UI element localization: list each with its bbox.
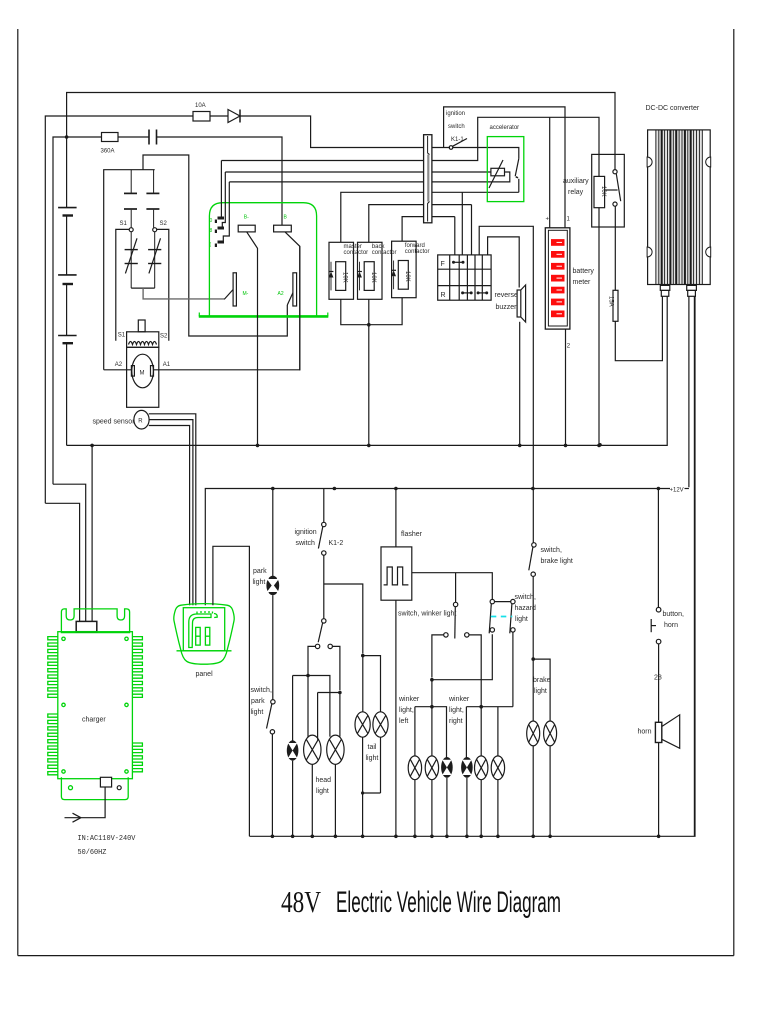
svg-text:brake light: brake light [541, 558, 573, 565]
button horn contact bottom [656, 639, 661, 644]
switch hazard pole R top [511, 599, 515, 603]
wire contactor common to return bus [368, 325, 370, 446]
wire winker lamp W4 feed [465, 707, 467, 758]
accelerator green box [487, 137, 524, 202]
wire charger feed 1 (from bus B) [45, 503, 79, 621]
wire K1-1 to accelerator [453, 148, 519, 159]
svg-text:10K: 10K [342, 272, 348, 283]
lamp winker W6 [491, 756, 504, 780]
junctions winker on bottom bus [413, 835, 500, 839]
charger fins left [48, 637, 58, 775]
junction battery positive to bus C [65, 135, 69, 139]
junction contactor common [367, 323, 371, 327]
svg-text:relay: relay [568, 189, 584, 196]
aux relay contact top [613, 170, 617, 174]
wire main negative return bus y=445.4 [67, 296, 668, 445]
switch S1 pivot [129, 228, 133, 232]
junction rail brake switch [531, 487, 535, 491]
svg-text:M: M [140, 371, 145, 377]
svg-text:switch: switch [448, 124, 465, 130]
switch park light pivot [271, 700, 275, 704]
wire pin3 to bus3 [223, 182, 229, 241]
lamp park light (filled) [266, 576, 279, 595]
panel green body [174, 604, 234, 665]
wire bus3 controller to accelerator resistor right [229, 172, 510, 182]
svg-text:K1-1: K1-1 [451, 137, 464, 143]
wire brake lamp2 feed [533, 659, 550, 721]
svg-text:light: light [515, 616, 528, 623]
wire hazard poles link [495, 601, 511, 603]
wire cap-top link to A2 loop [143, 155, 287, 336]
switch head light pivot [322, 619, 326, 623]
hazard gang dashed link [491, 616, 513, 618]
charger bottom holes [69, 786, 122, 790]
svg-text:B-: B- [244, 215, 249, 221]
svg-text:contactor: contactor [372, 250, 397, 256]
panel bottom line [177, 650, 232, 652]
svg-text:10A: 10A [195, 103, 206, 109]
svg-text:park: park [253, 568, 267, 575]
svg-text:park: park [251, 698, 265, 705]
junction contactor common on return bus [367, 444, 371, 448]
field winding box [127, 332, 159, 348]
button horn actuator [651, 619, 656, 632]
switch head light contact L [315, 644, 319, 648]
label switch park light [251, 687, 272, 716]
varistor S2 element [148, 232, 161, 288]
svg-text:A2: A2 [278, 291, 284, 297]
junction meter on return bus [564, 444, 568, 448]
wire park light feed [272, 489, 274, 577]
+12V rail [205, 489, 689, 606]
panel digit 8 left [196, 627, 201, 645]
svg-text:+: + [546, 217, 550, 223]
svg-text:R: R [138, 419, 143, 425]
svg-text:50/60HZ: 50/60HZ [78, 849, 107, 857]
switch K1-2 contact [322, 551, 326, 555]
charger terminal block top [76, 621, 97, 631]
wire back contactor bottom [368, 299, 370, 324]
wire bus6 F/R to forward contactor [402, 217, 455, 242]
DC-DC converter U2 body [655, 131, 703, 284]
label reverse buzzer [495, 292, 518, 311]
switch brake contact [531, 572, 535, 576]
switch K1-1 pivot [449, 146, 453, 150]
switch K1-1 blade [453, 139, 468, 147]
wire winker lamp W6 feed [497, 707, 499, 757]
fuse F3 15A [613, 290, 618, 321]
svg-text:0: 0 [210, 218, 213, 224]
lamp winker W5 [475, 756, 488, 780]
wire head high bus horizontal [318, 693, 340, 737]
svg-text:K1-2: K1-2 [329, 540, 344, 547]
svg-text:ignition: ignition [446, 111, 465, 117]
controller bar M- [233, 273, 236, 306]
wire AC input [81, 787, 105, 818]
switch brake pivot [532, 543, 536, 547]
switch winker pivot [453, 602, 457, 606]
contactor K back diode [357, 262, 362, 291]
aux relay contact bottom [613, 202, 617, 206]
motor brush tab left [131, 366, 134, 377]
charger screws [62, 637, 128, 773]
svg-text:winker: winker [448, 696, 470, 703]
svg-text:R: R [441, 292, 446, 299]
wire park lamp to switch [272, 595, 274, 699]
svg-text:light,: light, [449, 707, 464, 714]
wire winker L contact to left bus [432, 635, 444, 678]
wire F/R feed col2 [454, 217, 456, 255]
svg-text:flasher: flasher [401, 531, 423, 538]
junction buzzer on return bus [518, 444, 522, 448]
diode D1 [228, 110, 240, 123]
svg-text:S1: S1 [118, 333, 126, 339]
charger AC terminal [100, 777, 111, 787]
svg-text:10K: 10K [370, 272, 376, 283]
svg-text:meter: meter [573, 279, 592, 286]
lamp winker W2 [425, 756, 438, 780]
wire head high bus [332, 646, 340, 690]
svg-text:switch: switch [296, 540, 316, 547]
junction rail park light [271, 487, 275, 491]
switch K1-2 pivot [322, 522, 326, 526]
wire motor A1 to controller A2 terminal [154, 246, 300, 369]
contactor K master coil [336, 262, 348, 291]
label park light [253, 568, 268, 586]
wire flasher output [412, 573, 493, 600]
junction winker right bus [479, 705, 483, 709]
wire meter left terminal to bus y=117.3 [549, 117, 551, 228]
wire tail lamp1 feed [362, 656, 364, 712]
motor M body box [127, 347, 159, 407]
lamp brake 1 [527, 721, 540, 746]
AC input arrow [65, 813, 81, 822]
svg-text:head: head [316, 777, 332, 784]
wire horn to bottom bus [658, 743, 660, 837]
wire capacitor to controller B terminal [157, 137, 283, 225]
lamp tail 2 [373, 712, 388, 737]
junction park on bottom bus [271, 835, 275, 839]
blade A2 [287, 293, 293, 305]
battery B2 cell 2 [58, 275, 77, 284]
wire bottom return bus [249, 296, 695, 836]
lamp winker W1 [408, 756, 421, 780]
controller mounting flange [199, 313, 328, 317]
svg-text:light: light [366, 755, 379, 762]
wire accelerator switch out [518, 179, 520, 193]
controller pin 2 [210, 227, 225, 235]
svg-text:DC-DC converter: DC-DC converter [646, 105, 700, 112]
label winker light left [398, 696, 420, 725]
varistor S1 element [125, 232, 138, 288]
svg-text:A1: A1 [163, 362, 171, 368]
label winker light right [448, 696, 470, 725]
svg-text:horn: horn [638, 729, 652, 736]
svg-text:button,: button, [663, 611, 684, 618]
wire bus4 accelerator out to master contactor [341, 192, 519, 242]
junction tail branch [361, 654, 365, 658]
svg-text:light: light [251, 709, 264, 716]
label battery meter [573, 268, 595, 286]
svg-text:F: F [441, 261, 445, 268]
svg-text:charger: charger [82, 717, 106, 724]
contactor K master box [329, 242, 354, 299]
switch park light contact [270, 730, 274, 734]
charger top bracket [61, 609, 129, 633]
wire park switch to bottom bus [271, 734, 273, 836]
svg-text:horn: horn [664, 622, 678, 629]
svg-text:auxiliary: auxiliary [563, 178, 589, 185]
switch head light blade [318, 623, 322, 642]
junction head low [306, 674, 310, 678]
contactor K forward diode [391, 261, 396, 290]
wire K1-1 tap to battery meter bus y=106.9 [444, 107, 565, 228]
wire F/R feed col3 from bus4 [461, 192, 463, 255]
svg-text:light: light [534, 688, 547, 695]
junction brake lamps [531, 657, 535, 661]
wire brake switch to lamps [532, 576, 534, 721]
reverse buzzer BZ [517, 285, 526, 322]
wire winker L riser [431, 680, 433, 757]
wire bus C y=137 to charger branch [53, 137, 102, 484]
junction winker left bus [430, 705, 434, 709]
svg-text:right: right [449, 718, 463, 725]
aux relay coil to armature link [605, 189, 618, 191]
DC-DC connector right [687, 285, 697, 296]
svg-text:contactor: contactor [405, 249, 430, 255]
wire speed sensor 2 [149, 420, 193, 606]
wire K1-2 out [323, 555, 325, 619]
wire speed sensor 3 [149, 426, 190, 606]
label ignition switch K1-1 [446, 111, 465, 143]
svg-text:Electric Vehicle Wire Diagram: Electric Vehicle Wire Diagram [336, 886, 561, 919]
F/R switch box [438, 255, 491, 300]
switch winker contact R [465, 633, 469, 637]
capacitor stack S2 column [146, 170, 159, 228]
border frame left [17, 29, 19, 956]
accelerator switch blade [515, 159, 519, 178]
label auxiliary relay [563, 178, 589, 196]
svg-text:+12V: +12V [670, 488, 684, 494]
svg-text:ignition: ignition [295, 529, 317, 536]
svg-text:contactor: contactor [344, 250, 369, 256]
flasher box [381, 547, 412, 600]
wire S1S2 to controller M- (gray) [143, 288, 224, 299]
wires brake lamps to bottom bus [533, 746, 550, 837]
junction tail bottom [361, 791, 364, 794]
wire aux relay coil to return bus [598, 208, 600, 446]
label switch hazard light [515, 594, 537, 623]
svg-text:buzzer: buzzer [496, 304, 518, 311]
wire DC-DC right pair to +12V rail [688, 296, 690, 487]
wire bus5 F/R to back contactor [369, 205, 472, 243]
battery B3 cell 3 [58, 336, 77, 344]
wire meter bottom to return bus [565, 329, 567, 445]
border frame right [733, 29, 735, 956]
svg-text:switch,: switch, [541, 547, 562, 554]
junction rail horn [657, 487, 661, 491]
wire F/R feed col4 [471, 205, 473, 255]
controller green box U1 [209, 203, 316, 317]
junction horn on bottom bus [657, 835, 661, 839]
wire winker switch feed [455, 573, 457, 603]
switch winker contact L [444, 633, 448, 637]
switch K1-2 blade [318, 527, 322, 549]
wire winker R contact to riser [469, 635, 481, 756]
battery meter red bars [551, 239, 565, 317]
junction return bus to charger [90, 444, 94, 448]
wire contactor commons [341, 298, 402, 325]
wire flasher feed [395, 489, 397, 547]
wire tail lamps to bottom bus [363, 737, 381, 836]
svg-text:speed sensor: speed sensor [93, 419, 136, 426]
wire bus A +48V top y=92.5 [67, 93, 615, 208]
svg-text:8: 8 [210, 228, 213, 234]
wire S1S2 bottom join [131, 287, 155, 289]
svg-text:brake: brake [533, 677, 551, 684]
auxiliary relay box [592, 154, 625, 227]
junction B- drop on return bus [256, 444, 260, 448]
charger body [58, 632, 133, 779]
lamp tail 1 [355, 712, 370, 737]
junction winker L hazard link [430, 678, 434, 682]
svg-text:A2: A2 [115, 362, 123, 368]
battery meter bar ticks [557, 242, 563, 313]
svg-text:switch, winker light: switch, winker light [398, 611, 456, 618]
junction bus1 drop on return bus [598, 443, 602, 447]
svg-text:panel: panel [196, 671, 214, 678]
battery B1 cell 1 [58, 208, 77, 216]
switch brake blade [529, 547, 533, 570]
switch hazard pole R bottom [511, 628, 515, 632]
accelerator resistor R [491, 168, 505, 176]
panel digit 8 right [205, 627, 209, 645]
label forward contactor [405, 243, 430, 255]
svg-text:S2: S2 [160, 221, 168, 227]
label brake light [533, 677, 551, 695]
switch park light blade [267, 704, 272, 729]
wire bus2 controller to accelerator resistor [225, 171, 491, 173]
fuse F1 10A [193, 112, 210, 122]
switch hazard pole L top [490, 599, 494, 603]
svg-text:M-: M- [243, 291, 249, 297]
svg-text:15A: 15A [608, 296, 614, 307]
wire button to horn [658, 644, 660, 722]
lamp beam indicator (filled) [287, 740, 299, 760]
DC-DC notches [647, 157, 711, 257]
battery meter box [545, 228, 570, 329]
R contact 1 [461, 291, 473, 294]
contactor K forward box [392, 241, 417, 298]
svg-text:S2: S2 [160, 334, 168, 340]
wire tail light bus [363, 656, 381, 712]
wire bus1 controller to elbow [221, 117, 599, 176]
wire pin2 to bus2 [222, 172, 225, 227]
S1S2 box right edge [157, 229, 169, 340]
wire aux relay contact to 15A fuse [614, 206, 616, 290]
wire tail light branch [324, 584, 363, 654]
svg-text:IN:AC110V-240V: IN:AC110V-240V [78, 835, 137, 843]
switch hazard pole R blade [510, 604, 512, 634]
panel needle swoosh [189, 611, 217, 648]
wire head low bus [308, 646, 315, 675]
wire DC-DC right pair to bottom bus [693, 296, 695, 836]
aux relay coil [594, 176, 606, 207]
svg-text:S1: S1 [120, 221, 128, 227]
wire panel aux feed [213, 546, 250, 836]
wire F/R col5 to rail feed [479, 226, 533, 543]
DC-DC connector left [660, 285, 670, 296]
svg-text:10K: 10K [404, 271, 410, 282]
svg-text:winker: winker [398, 696, 420, 703]
wire B- blade to return bus [247, 232, 258, 446]
controller pin 3 [210, 241, 225, 249]
svg-text:accelerator: accelerator [490, 125, 520, 131]
controller contact B [274, 225, 292, 232]
wire battery negative down to return bus [66, 343, 68, 445]
wire B blade to motor A1 [285, 232, 300, 371]
wire head lamps to bottom bus [293, 761, 336, 837]
controller pin 1 [210, 217, 225, 225]
lamp winker W4 (filled) [461, 757, 473, 778]
wire high beam indicator feed [292, 676, 294, 741]
capacitor C1 [149, 130, 157, 145]
R contact 2 [477, 291, 489, 294]
label master contactor [344, 244, 369, 256]
contactor K back coil [364, 262, 376, 291]
charger bottom bracket [61, 777, 128, 799]
svg-text:left: left [399, 718, 408, 725]
svg-text:reverse: reverse [495, 292, 518, 299]
wire fuse to diode [210, 115, 228, 117]
svg-text:battery: battery [573, 268, 595, 275]
wire horn button feed [657, 489, 659, 608]
junction rail flasher [394, 487, 398, 491]
svg-text:tail: tail [368, 744, 377, 751]
blade M- [224, 290, 233, 300]
wire pin1 to bus1 [220, 161, 222, 217]
svg-text:light,: light, [399, 707, 414, 714]
wire winker lamp W1 feed [414, 707, 416, 757]
contactor K back box [358, 242, 383, 299]
wire K1-2 feed from rail [323, 489, 325, 523]
wire 15A fuse to DC-DC input [615, 296, 662, 360]
wire fuse 360A to capacitor [118, 136, 149, 138]
fuse F2 360A [102, 133, 119, 142]
contactor K master diode [329, 262, 334, 291]
wire speed sensor 1 [149, 414, 196, 605]
svg-text:48V: 48V [281, 884, 321, 919]
svg-text:10K: 10K [600, 186, 606, 197]
label head light [316, 777, 332, 795]
junctions head on bottom bus [291, 835, 337, 839]
flasher square wave [384, 567, 409, 585]
lamp winker W3 (filled) [441, 757, 453, 778]
junction rail K1-2 [333, 487, 337, 491]
svg-text:light: light [253, 579, 266, 586]
wire battery link 1-2 [66, 216, 68, 275]
wire head low bus horizontal [293, 676, 330, 737]
wire buzzer to return bus [519, 322, 521, 446]
controller bar A2 [293, 273, 297, 306]
switch hazard pole L blade [489, 604, 491, 634]
panel inner screen [183, 608, 224, 651]
label switch brake light [541, 547, 573, 565]
lamp head light 2 [327, 735, 344, 764]
wire winker left lamp bus [415, 707, 447, 758]
wire head lamp1 high feed [317, 693, 319, 740]
svg-text:360A: 360A [101, 149, 115, 155]
